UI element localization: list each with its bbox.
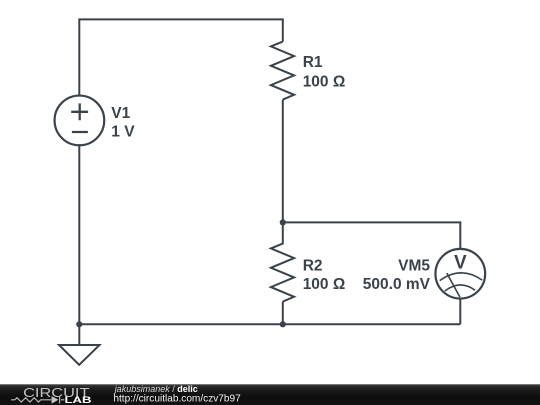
node gnd-mid junction (280, 321, 286, 327)
svg-text:V1: V1 (111, 105, 130, 122)
wire V1 bottom (78, 145, 80, 345)
wire voltmeter bottom (459, 299, 461, 325)
ground (59, 345, 100, 365)
svg-text:500.0 mV: 500.0 mV (363, 276, 431, 293)
svg-text:100 Ω: 100 Ω (303, 73, 346, 90)
circuitlab logo (11, 385, 92, 405)
wire node to voltmeter top (283, 222, 461, 249)
node gnd-left junction (76, 321, 82, 327)
voltmeter VM5 (435, 249, 485, 299)
svg-text:jakubsimanek / delic: jakubsimanek / delic (114, 384, 198, 394)
resistor R1 (271, 42, 294, 100)
footer bar (0, 384, 540, 405)
wire bottom rail (79, 323, 460, 325)
svg-text:R1: R1 (303, 54, 323, 71)
svg-text:http://circuitlab.com/czv7b97: http://circuitlab.com/czv7b97 (113, 394, 241, 405)
wire top loop V1 to R1 (79, 19, 282, 95)
svg-text:1 V: 1 V (111, 124, 135, 141)
wire R2 bottom (282, 302, 284, 325)
svg-text:V: V (454, 253, 467, 274)
svg-text:VM5: VM5 (398, 258, 430, 275)
svg-text:LAB: LAB (65, 395, 92, 405)
voltage source V1 (55, 96, 105, 146)
node A junction (280, 219, 286, 225)
svg-text:R2: R2 (303, 258, 323, 275)
voltmeter arcs and needle (440, 273, 483, 297)
wire R1 bottom to node (282, 100, 284, 223)
resistor R2 (271, 222, 294, 301)
junction dots (76, 219, 286, 327)
svg-text:100 Ω: 100 Ω (303, 276, 346, 293)
